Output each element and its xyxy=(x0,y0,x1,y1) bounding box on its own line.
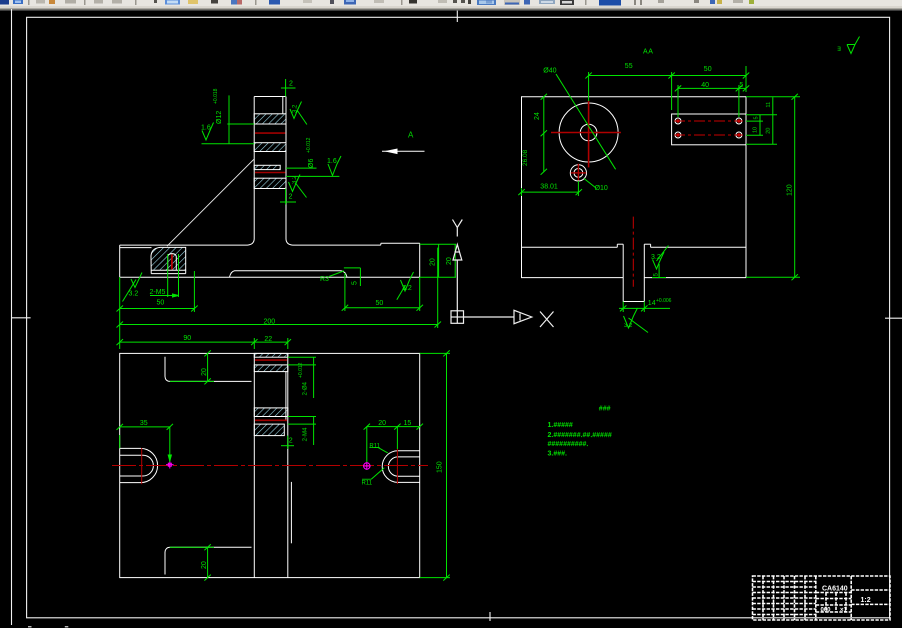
svg-text:A: A xyxy=(408,131,414,140)
svg-text:Ø6: Ø6 xyxy=(308,159,315,168)
svg-text:20: 20 xyxy=(201,368,208,376)
svg-text:2-M4: 2-M4 xyxy=(303,427,309,441)
svg-text:3.2: 3.2 xyxy=(292,175,298,184)
svg-text:CA6140: CA6140 xyxy=(822,586,848,593)
svg-text:###: ### xyxy=(599,406,611,413)
svg-text:000: 000 xyxy=(821,608,832,614)
svg-text:20: 20 xyxy=(446,257,453,265)
svg-text:5: 5 xyxy=(352,281,359,285)
svg-text:90: 90 xyxy=(183,335,191,342)
svg-text:3.2: 3.2 xyxy=(128,291,138,298)
svg-text:5: 5 xyxy=(739,82,743,89)
svg-text:50: 50 xyxy=(156,300,164,307)
svg-text:3.###.: 3.###. xyxy=(547,451,567,458)
svg-text:+0.012: +0.012 xyxy=(306,137,312,153)
svg-text:×1: ×1 xyxy=(840,608,848,614)
svg-text:50: 50 xyxy=(704,66,712,73)
svg-text:40: 40 xyxy=(701,82,709,89)
svg-text:14: 14 xyxy=(648,300,656,307)
svg-text:2: 2 xyxy=(288,194,292,201)
svg-text:11: 11 xyxy=(766,102,772,108)
svg-text:Ø12: Ø12 xyxy=(216,111,223,124)
svg-text:+0.006: +0.006 xyxy=(656,298,672,304)
svg-text:1.6: 1.6 xyxy=(327,158,337,165)
svg-text:55: 55 xyxy=(625,63,633,70)
svg-text:1:2: 1:2 xyxy=(861,597,871,604)
svg-text:120: 120 xyxy=(787,184,794,196)
svg-text:2: 2 xyxy=(289,437,293,444)
svg-text:2.#######.##.#####: 2.#######.##.##### xyxy=(547,432,611,439)
svg-text:5: 5 xyxy=(754,116,760,119)
svg-text:24: 24 xyxy=(534,112,541,120)
svg-text:R11: R11 xyxy=(361,480,372,486)
svg-text:3.2: 3.2 xyxy=(651,254,661,261)
svg-text:+0.012: +0.012 xyxy=(298,362,304,378)
svg-text:R3: R3 xyxy=(320,276,329,283)
svg-text:3.2: 3.2 xyxy=(624,323,633,329)
svg-text:∃: ∃ xyxy=(837,46,841,53)
svg-text:1.6: 1.6 xyxy=(201,125,211,132)
svg-text:15: 15 xyxy=(403,420,411,427)
svg-text:50: 50 xyxy=(375,300,383,307)
svg-text:26.08: 26.08 xyxy=(522,149,529,166)
svg-text:10: 10 xyxy=(753,127,759,133)
svg-text:35: 35 xyxy=(140,420,148,427)
svg-text:22: 22 xyxy=(264,336,272,343)
svg-text:Ø10: Ø10 xyxy=(595,185,608,192)
svg-text:1.#####: 1.##### xyxy=(547,422,572,429)
svg-text:20: 20 xyxy=(430,258,437,266)
svg-text:R11: R11 xyxy=(369,444,380,450)
svg-text:Ø40: Ø40 xyxy=(543,68,556,75)
svg-text:2: 2 xyxy=(289,81,293,88)
svg-text:20: 20 xyxy=(201,561,208,569)
svg-text:##########.: ##########. xyxy=(547,441,588,448)
svg-text:150: 150 xyxy=(437,461,444,473)
svg-text:200: 200 xyxy=(263,319,275,326)
svg-text:3.2: 3.2 xyxy=(402,285,412,292)
svg-text:+0.018: +0.018 xyxy=(213,88,219,104)
svg-text:AA: AA xyxy=(643,49,654,56)
svg-text:20: 20 xyxy=(378,420,386,427)
svg-text:20: 20 xyxy=(766,128,772,134)
svg-text:2-Ø4: 2-Ø4 xyxy=(303,381,309,395)
svg-text:3.2: 3.2 xyxy=(293,104,299,113)
svg-text:2-M5: 2-M5 xyxy=(149,289,165,296)
svg-text:38.01: 38.01 xyxy=(540,184,558,191)
